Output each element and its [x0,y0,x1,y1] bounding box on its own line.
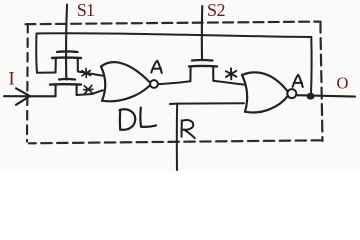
output bubble G1 [150,80,158,88]
NOR gate G2 [242,72,288,112]
node A (G1 output) [151,61,162,73]
node marker * (big) [226,68,237,79]
pass transistor T2 (gate S1, input I) [50,79,81,96]
svg-text:I: I [9,69,15,89]
pass transistor T1 (gate S1, feedback input) [52,51,81,72]
node marker * (lower) [84,85,93,93]
output wire O [297,95,355,96]
junction node (feedback tap) [307,93,315,100]
dashed module boundary DL [26,22,323,144]
svg-text:S1: S1 [77,0,94,20]
input wire I [4,95,56,97]
node A (G2 output) [293,75,303,87]
output bubble G2 [287,89,296,98]
svg-text:O: O [337,73,349,92]
label R (handwritten) [182,120,195,138]
wire G1 output to transistor T3 [158,81,190,84]
label DL (handwritten) [120,108,156,130]
reset wire R into NOR G2 bottom input [170,102,244,105]
wire T1 to NOR G1 top input [78,72,103,76]
wire T2 to NOR G1 bottom input [77,90,103,95]
control line S1 [65,5,68,80]
feedback wire from output O to transistor T1 [36,33,311,95]
pass transistor T3 (gate S2) [189,60,217,81]
wire T3 to NOR G2 top input [213,81,244,85]
input arrowhead [16,88,30,105]
node marker * (node A1 input) [82,69,91,78]
svg-text:S2: S2 [207,0,225,20]
control line S2 [201,6,204,60]
NOR gate G1 [101,62,150,101]
